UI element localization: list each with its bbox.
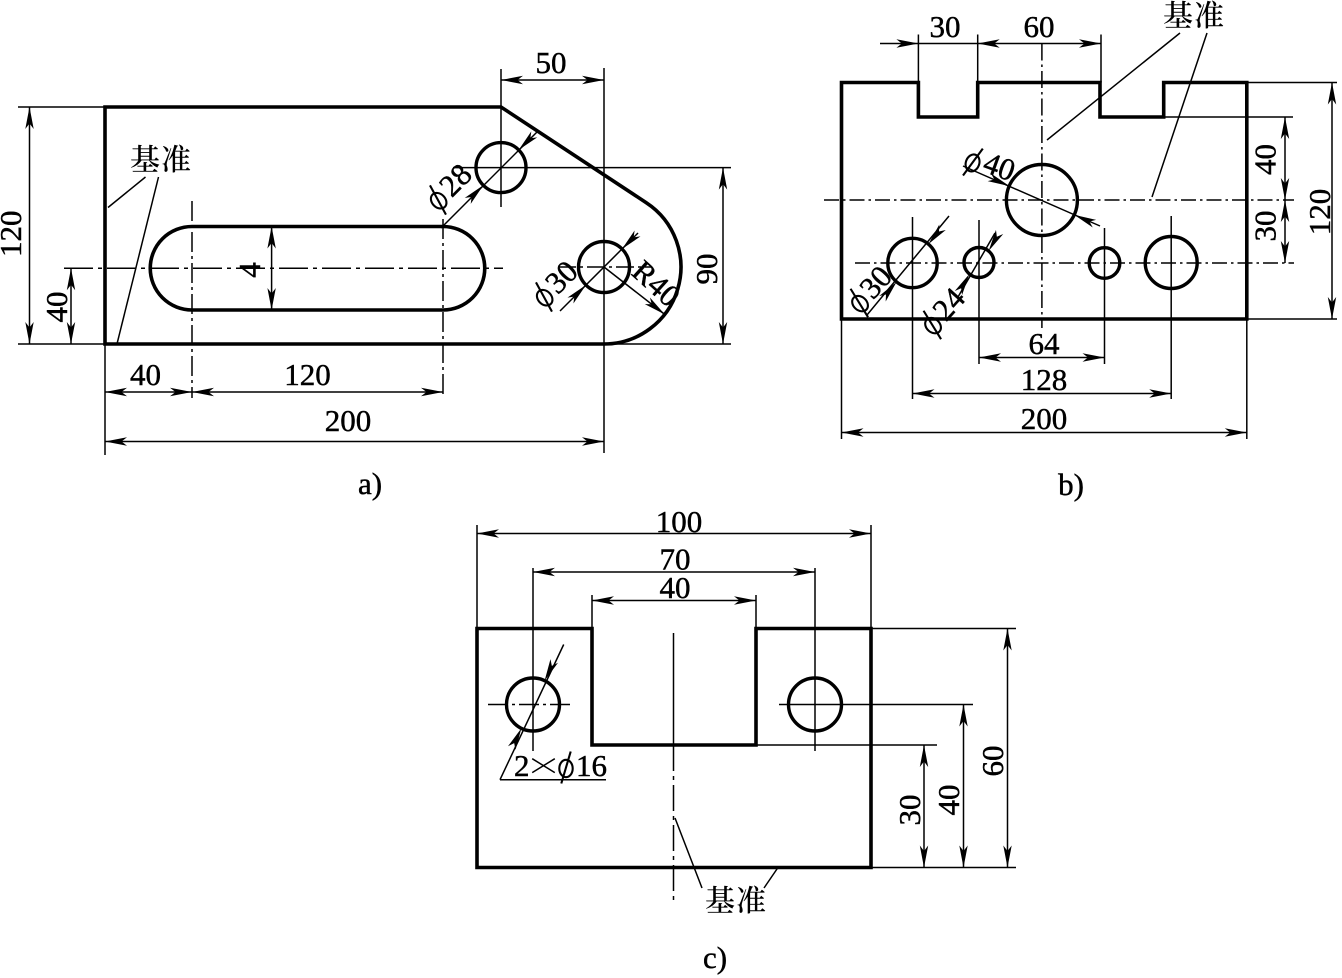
dimension 30 (c right)	[756, 744, 937, 746]
svg-text:c): c)	[703, 940, 727, 975]
dimension 40 (bottom)	[104, 344, 106, 455]
slot right arc center line	[442, 219, 444, 398]
dimension 200 (bottom)	[105, 441, 604, 443]
left hole horizontal center line	[488, 704, 570, 706]
dimension 70	[533, 571, 815, 573]
dimension 120 (right)	[1247, 82, 1337, 84]
small hole vertical center line	[1104, 228, 1106, 364]
svg-text:40: 40	[931, 785, 966, 816]
dimension 4 (slot width)	[271, 227, 273, 311]
phi24 vertical center line	[978, 220, 980, 364]
datum label (figure a)	[131, 145, 190, 173]
dimension 200 (b)	[841, 319, 843, 439]
datum leader to center line	[675, 818, 702, 888]
small hole (right-middle)	[1089, 248, 1120, 279]
svg-text:100: 100	[656, 504, 703, 539]
svg-text:2: 2	[514, 748, 530, 783]
dimension 64	[979, 357, 1105, 359]
svg-text:40: 40	[660, 570, 691, 605]
leader phi30	[560, 233, 638, 311]
hole phi40	[1006, 165, 1077, 236]
dimension 120 (left height)	[18, 106, 105, 108]
phi28 horizontal center/extension line	[453, 167, 731, 169]
svg-text:128: 128	[1021, 362, 1068, 397]
dimension 30 (right)	[1284, 200, 1286, 263]
right hole horizontal center/extension line	[779, 704, 973, 706]
dimension 90 (right height)	[610, 343, 731, 345]
svg-text:40: 40	[130, 357, 161, 392]
svg-text:50: 50	[536, 45, 567, 80]
svg-text:a): a)	[358, 466, 382, 501]
svg-text:60: 60	[975, 746, 1010, 777]
leader 2x phi16	[500, 645, 564, 780]
svg-text:90: 90	[689, 254, 724, 285]
hole phi28	[476, 143, 526, 193]
dimension 50 (top)	[501, 79, 604, 81]
phi30(b) vertical center line	[912, 217, 914, 399]
svg-text:64: 64	[1029, 326, 1061, 361]
dimension 40 (left, slot center height)	[70, 268, 72, 344]
dimension 120 (bottom)	[192, 391, 443, 393]
svg-text:30: 30	[930, 9, 961, 44]
datum leader to left edge	[108, 177, 146, 208]
holes row center line	[855, 262, 1294, 264]
leader phi40	[963, 166, 1100, 226]
hole phi24	[964, 248, 994, 278]
svg-text:30: 30	[1248, 211, 1283, 242]
svg-text:b): b)	[1058, 467, 1084, 502]
datum leader to bottom edge	[764, 868, 778, 889]
datum label (figure c)	[706, 886, 765, 914]
svg-text:60: 60	[1024, 9, 1055, 44]
datum leader to vertical center line	[1047, 33, 1180, 140]
dimension 60 (c right)	[871, 628, 1016, 630]
svg-text:120: 120	[0, 210, 28, 257]
slot horizontal center line	[64, 267, 503, 269]
dimension 40 (c right)	[963, 705, 965, 868]
part outline (figure a plate)	[105, 107, 681, 344]
part outline (figure c block with top notch)	[477, 629, 871, 868]
right hole vertical center/extension line	[814, 568, 816, 751]
dimension 30 (top notch)	[917, 35, 919, 83]
dimension 128	[913, 393, 1172, 395]
right hole vertical center line	[1170, 216, 1172, 399]
svg-text:40: 40	[1248, 144, 1283, 175]
hole phi30 (b)	[888, 238, 937, 287]
dimension 60 (top)	[1079, 39, 1101, 47]
left hole vertical center/extension line	[532, 568, 534, 751]
hole (right)	[1145, 237, 1197, 289]
svg-text:4: 4	[232, 262, 267, 278]
leader phi30 (b)	[867, 216, 949, 315]
hole right (2x phi16)	[789, 678, 842, 731]
slot left arc center line	[191, 201, 193, 398]
svg-text:120: 120	[1302, 189, 1337, 236]
figure center line dash-dot part	[673, 745, 675, 905]
phi30 horizontal center line	[558, 266, 652, 268]
datum leader to horizontal center line	[1152, 33, 1207, 197]
phi28 vertical center/extension line	[500, 69, 502, 207]
vertical center line phi40	[1041, 44, 1043, 329]
svg-text:40: 40	[39, 292, 74, 323]
phi30 vertical center/extension line (long)	[603, 68, 605, 453]
figure center line solid part	[673, 633, 675, 745]
svg-text:200: 200	[1021, 401, 1068, 436]
leader phi28	[441, 131, 538, 228]
hole phi30	[579, 242, 630, 293]
svg-text:30: 30	[892, 795, 927, 826]
svg-text:16: 16	[576, 748, 607, 783]
dimension 40 (notch width)	[591, 595, 593, 629]
svg-text:200: 200	[325, 403, 372, 438]
part outline (figure b block with two notches)	[842, 83, 1247, 320]
svg-text:120: 120	[284, 357, 331, 392]
slot (obround hole)	[150, 227, 485, 311]
datum label (figure b)	[1164, 1, 1223, 29]
horizontal center line (datum)	[824, 199, 1294, 201]
leader phi24	[958, 233, 995, 297]
leader R40	[604, 267, 665, 314]
datum leader to bottom edge	[117, 177, 158, 343]
dimension 40 (right)	[1164, 116, 1293, 118]
dimension 100	[476, 525, 478, 629]
hole left (2x phi16)	[507, 678, 560, 731]
